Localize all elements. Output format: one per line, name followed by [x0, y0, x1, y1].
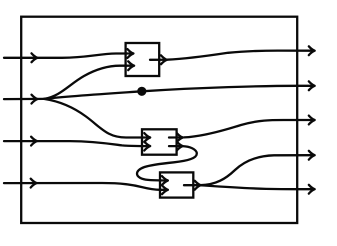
box f: [126, 43, 160, 76]
arrow C into box g: [144, 142, 150, 151]
box h: [160, 172, 193, 197]
dot node: [137, 87, 146, 96]
wire box h output branch to output 5: [200, 185, 313, 189]
wire input A: [4, 54, 133, 58]
wire branch B through dot to output 2: [44, 86, 313, 99]
arrow input A: [32, 53, 38, 62]
arrow output 3: [309, 116, 315, 125]
arrow input D: [31, 179, 37, 188]
arrow box g output 1: [177, 133, 183, 142]
arrow loop into box h: [162, 176, 168, 185]
wire input C: [4, 141, 150, 146]
wire branch B to box g: [44, 99, 150, 138]
arrow A into box f: [128, 49, 134, 58]
wire input D: [4, 183, 168, 190]
arrow box h output: [195, 181, 201, 190]
arrow input C: [31, 137, 37, 146]
arrow output 4: [309, 151, 315, 160]
wire box g output 1 to output 3: [169, 120, 313, 138]
arrow D into box h: [162, 185, 168, 194]
outer frame: [21, 17, 297, 223]
arrow box g output 2: [177, 142, 183, 151]
arrow B into box g: [144, 133, 150, 142]
wire box h output branch to output 4: [184, 155, 313, 185]
arrow input B: [32, 95, 38, 104]
arrow B into box f: [128, 61, 134, 70]
box g: [142, 129, 177, 154]
wire box f output to output 1: [150, 51, 313, 60]
wire box g output 2 loop into box h: [137, 146, 197, 180]
wire input B: [4, 98, 44, 100]
arrow output 2: [309, 81, 315, 90]
arrow box f output: [161, 55, 167, 64]
arrow output 5: [309, 185, 315, 194]
wire branch B to box f: [44, 66, 134, 99]
arrow output 1: [309, 46, 315, 55]
